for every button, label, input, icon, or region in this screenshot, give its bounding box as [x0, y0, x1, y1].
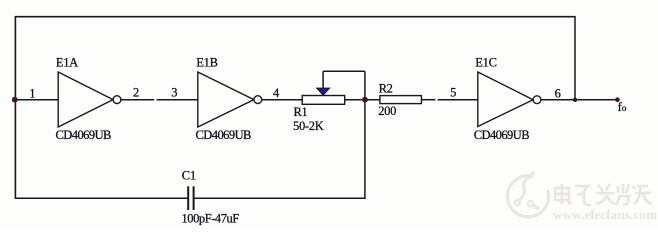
inverter E1C — [478, 72, 541, 127]
svg-text:E1B: E1B — [196, 56, 217, 70]
junction node output feedback — [573, 98, 577, 102]
wire: pin 2 segment — [121, 99, 154, 101]
svg-text:100pF-47uF: 100pF-47uF — [182, 212, 240, 226]
svg-text:2: 2 — [133, 85, 139, 99]
wire: pin 1 input segment — [15, 99, 59, 101]
wire: bottom right segment from C1 — [194, 197, 365, 199]
svg-text:6: 6 — [555, 87, 561, 101]
svg-text:www.elecfans.com: www.elecfans.com — [553, 207, 657, 222]
svg-text:R2: R2 — [379, 81, 393, 95]
svg-text:3: 3 — [171, 85, 177, 99]
wire: left vertical — [14, 16, 16, 199]
wire: right vertical from junction down to bottom — [364, 71, 366, 199]
wire: pin 5 segment b — [438, 99, 478, 101]
wire: pin 6 output to fo — [541, 99, 618, 101]
junction node R1/R2/C1 — [362, 97, 368, 103]
junction node at input (left) — [12, 97, 18, 103]
inverter E1A — [58, 72, 121, 127]
potentiometer R1 wiper vertical stub — [322, 71, 324, 88]
svg-text:5: 5 — [450, 85, 456, 99]
wire: feedback right vertical — [574, 16, 576, 100]
svg-text:E1A: E1A — [56, 56, 78, 70]
wire: feedback top horizontal — [15, 16, 576, 18]
svg-text:1: 1 — [29, 86, 35, 100]
svg-text:CD4069UB: CD4069UB — [196, 128, 252, 142]
potentiometer R1 wiper arrow — [316, 88, 329, 95]
svg-text:CD4069UB: CD4069UB — [474, 128, 530, 142]
wire: R1 to R2 through junction — [345, 99, 381, 101]
node fo terminal dot — [615, 97, 620, 102]
svg-text:50-2K: 50-2K — [293, 119, 324, 133]
wire: pin 4 segment — [262, 99, 303, 101]
potentiometer R1 body — [302, 96, 345, 105]
wire: pin 3 segment — [157, 99, 198, 101]
svg-text:C1: C1 — [182, 168, 196, 182]
wire: bottom left segment to C1 — [15, 197, 188, 199]
svg-text:200: 200 — [378, 104, 396, 118]
potentiometer R1 wiper loop horizontal — [323, 70, 365, 72]
svg-text:R1: R1 — [294, 105, 308, 119]
svg-text:4: 4 — [273, 86, 280, 100]
watermark logo circle — [507, 172, 548, 217]
wire: pin 5 segment a — [421, 99, 435, 101]
inverter E1B — [198, 72, 262, 127]
watermark chinese text — [555, 184, 652, 205]
svg-text:CD4069UB: CD4069UB — [56, 128, 112, 142]
capacitor C1 plates — [188, 186, 193, 210]
resistor R2 body — [380, 96, 422, 104]
svg-text:E1C: E1C — [475, 56, 496, 70]
